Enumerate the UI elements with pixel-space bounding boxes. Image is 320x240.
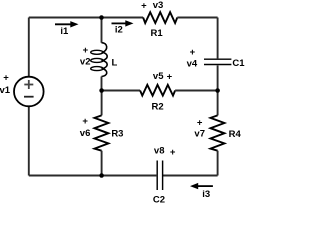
svg-text:R3: R3: [111, 129, 123, 140]
inductor L: [91, 43, 107, 77]
current arrow i1: [55, 21, 79, 27]
node bottom junction: [99, 173, 104, 178]
wire right junction to R4: [217, 91, 219, 116]
wire bottom left segment: [29, 175, 157, 177]
svg-text:+: +: [83, 45, 89, 56]
wire inductor to middle junction: [101, 77, 103, 91]
svg-text:v2: v2: [80, 57, 91, 68]
svg-text:v6: v6: [80, 128, 91, 139]
resistor R2: [140, 85, 175, 96]
node top junction: [99, 15, 104, 20]
svg-text:v5: v5: [153, 71, 164, 82]
capacitor C1: [204, 59, 231, 64]
svg-text:v8: v8: [154, 146, 165, 157]
node right junction: [215, 88, 220, 93]
svg-text:+: +: [167, 71, 173, 82]
wire C1 to right junction: [217, 65, 219, 90]
svg-text:C1: C1: [232, 58, 245, 69]
svg-text:R1: R1: [151, 28, 164, 39]
node middle junction: [99, 88, 104, 93]
svg-text:i2: i2: [115, 25, 123, 36]
wire top junction to inductor: [101, 18, 103, 43]
svg-text:L: L: [111, 58, 117, 69]
voltage source V1: [14, 77, 44, 107]
svg-text:+: +: [197, 117, 203, 128]
svg-text:+: +: [170, 147, 176, 158]
wire R2 to right junction: [175, 90, 218, 92]
wire R4 to bottom-right corner: [217, 151, 219, 176]
wire R1 to top-right corner: [177, 17, 217, 19]
wire middle junction to R2: [102, 90, 141, 92]
wire top junction to R1: [102, 17, 144, 19]
current arrow i3: [190, 183, 213, 189]
svg-text:R4: R4: [229, 129, 242, 140]
svg-text:v7: v7: [194, 129, 205, 140]
svg-text:C2: C2: [153, 195, 165, 205]
wire R3 to bottom junction: [101, 151, 103, 176]
svg-text:v3: v3: [153, 0, 164, 11]
resistor R1: [143, 12, 177, 23]
V1 plus mark: [24, 80, 33, 89]
svg-text:i1: i1: [60, 26, 69, 37]
svg-text:+: +: [141, 0, 147, 11]
wire right rail top: [217, 18, 219, 59]
wire top-left to top junction: [29, 17, 102, 19]
svg-text:+: +: [190, 47, 196, 58]
wire middle junction to R3: [101, 91, 103, 116]
wire left rail lower: [28, 106, 30, 175]
svg-text:+: +: [3, 72, 9, 83]
resistor R4: [211, 115, 225, 150]
svg-text:+: +: [82, 116, 88, 127]
resistor R3: [95, 115, 109, 150]
capacitor C2: [157, 161, 162, 191]
svg-text:i3: i3: [202, 189, 210, 200]
svg-text:v1: v1: [0, 85, 11, 96]
current arrow i2: [112, 20, 134, 26]
wire left rail upper: [28, 18, 30, 77]
wire bottom right segment: [163, 175, 218, 177]
svg-text:v4: v4: [187, 59, 198, 70]
V1 minus mark: [24, 96, 34, 98]
svg-text:R2: R2: [152, 101, 164, 112]
